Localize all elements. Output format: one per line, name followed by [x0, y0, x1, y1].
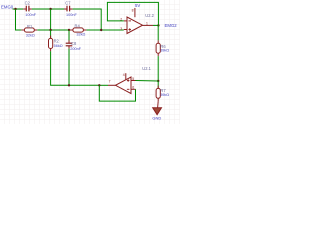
svg-text:39kΩ: 39kΩ	[160, 48, 169, 52]
wire pin5 to divider node	[136, 80, 159, 83]
svg-text:R4: R4	[75, 23, 81, 28]
svg-text:39kΩ: 39kΩ	[160, 93, 169, 97]
node junction rail x69	[68, 84, 70, 86]
svg-text:100nF: 100nF	[25, 13, 36, 17]
svg-text:R1: R1	[27, 24, 33, 29]
wire feedback loop U2.2	[107, 2, 158, 25]
node junction row A x50.6	[49, 8, 51, 10]
wire R1 to junction rowB	[37, 29, 69, 31]
resistor R7	[156, 81, 160, 101]
resistor R2	[49, 30, 53, 51]
wire output U2.1 pin 7	[108, 84, 116, 86]
op-amp U2.1	[116, 73, 136, 93]
capacitor C8	[66, 30, 73, 49]
svg-text:U2.1: U2.1	[142, 66, 151, 71]
resistor R1	[21, 28, 37, 32]
svg-text:7: 7	[109, 80, 111, 84]
wire R6 to divider node	[157, 56, 159, 81]
wire EMG0 to C2	[13, 8, 24, 10]
svg-text:EMG0: EMG0	[1, 4, 14, 9]
svg-text:3: 3	[120, 27, 122, 31]
node junction divider	[157, 80, 159, 82]
svg-text:C2: C2	[25, 1, 31, 6]
node junction rowB x50.6	[49, 29, 51, 31]
svg-text:32kΩ: 32kΩ	[76, 33, 85, 37]
wire EMG0 down to R1	[16, 9, 22, 30]
svg-text:5V: 5V	[135, 3, 140, 8]
svg-text:200nF: 200nF	[70, 47, 81, 51]
svg-text:1: 1	[146, 21, 148, 25]
op-amp U2.2	[124, 8, 143, 34]
svg-text:U2.2: U2.2	[145, 13, 154, 18]
node junction at EMG0 split	[14, 8, 16, 10]
svg-text:C8: C8	[71, 41, 77, 46]
svg-text:EMG2: EMG2	[165, 23, 178, 28]
svg-text:R2: R2	[54, 39, 60, 44]
node junction rowB x101	[100, 29, 102, 31]
ground symbol	[153, 101, 162, 115]
wire R4 to pin3	[86, 29, 123, 31]
svg-text:8: 8	[132, 8, 134, 12]
wire EMG2 down to R6	[157, 25, 159, 40]
svg-text:GND: GND	[152, 116, 161, 121]
wire C8 bottom to rail	[68, 49, 70, 86]
node junction rail x99	[98, 84, 100, 86]
svg-text:56kΩ: 56kΩ	[54, 44, 63, 48]
wire C7 to corner then down to rowB junction	[73, 9, 102, 30]
svg-text:4: 4	[123, 73, 125, 77]
svg-text:C7: C7	[65, 1, 71, 6]
svg-text:100nF: 100nF	[66, 13, 77, 17]
wire feedback loop U2.1	[99, 85, 135, 101]
capacitor C7	[64, 6, 73, 12]
wire R2 bottom to rail	[51, 51, 100, 85]
node junction rowB x69	[68, 29, 70, 31]
resistor R6	[156, 40, 160, 56]
wire C2 to junction	[32, 8, 64, 10]
capacitor C2	[23, 6, 32, 12]
svg-text:32kΩ: 32kΩ	[26, 34, 35, 38]
wire vertical junction rowA to rowB	[50, 9, 52, 30]
node junction output EMG2	[157, 24, 159, 26]
wire output U2.2	[143, 24, 154, 26]
svg-text:6: 6	[132, 86, 134, 90]
svg-text:5: 5	[132, 77, 134, 81]
resistor R4	[69, 28, 86, 32]
